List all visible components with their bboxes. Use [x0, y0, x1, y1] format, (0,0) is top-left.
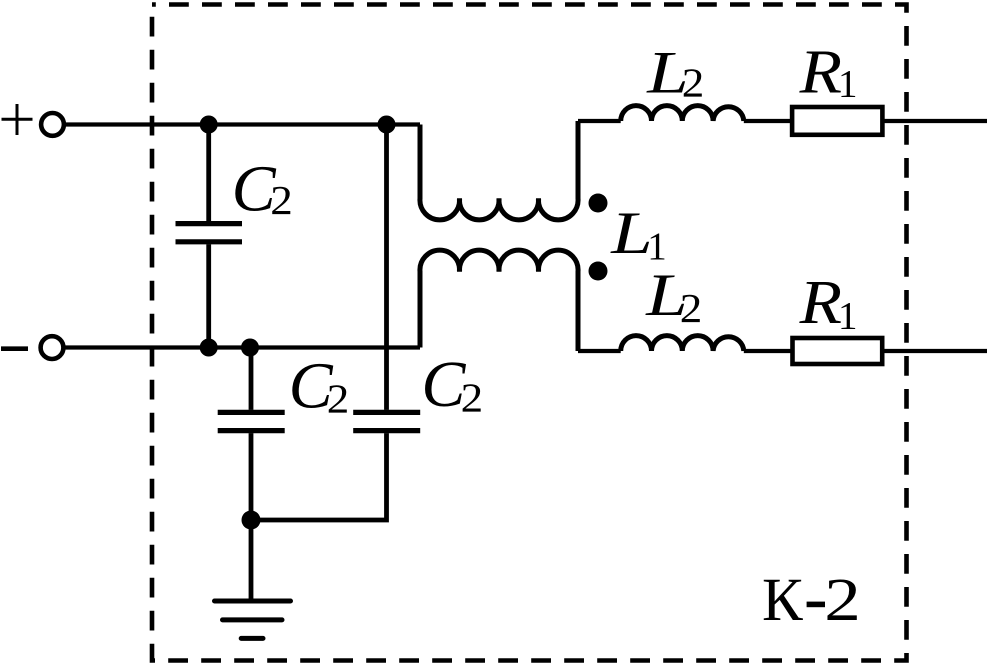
svg-text:1: 1 [838, 63, 858, 106]
inductor L1 primary winding top [420, 121, 578, 220]
svg-text:2: 2 [270, 179, 293, 224]
svg-text:2: 2 [680, 287, 703, 332]
wire plus line [66, 122, 420, 126]
svg-text:2: 2 [824, 566, 861, 634]
capacitor C2 middle: plates [218, 412, 285, 430]
terminal circle plus [41, 113, 64, 136]
capacitor C2 right: lead from plus node crossing minus line [384, 125, 389, 410]
resistor R1 top [792, 107, 882, 135]
svg-text:R: R [799, 268, 842, 337]
node junction minus line middle [241, 339, 259, 357]
dashed enclosure box K-2 [152, 5, 907, 661]
capacitor C2 right: plates [353, 412, 420, 430]
svg-text:2: 2 [682, 61, 705, 106]
ground lead [249, 520, 254, 599]
capacitor C2 left: plates [176, 224, 243, 242]
svg-text:L: L [610, 200, 652, 267]
wire bottom branch [578, 349, 621, 353]
svg-text:К: К [762, 567, 803, 634]
phase dot bottom [589, 262, 608, 281]
plus polarity sign [2, 104, 33, 135]
node junction plus line right [378, 116, 396, 134]
capacitor C2 left: bottom lead [206, 244, 211, 347]
node junction ground [242, 511, 261, 530]
svg-text:1: 1 [838, 294, 858, 337]
node junction plus line left [200, 116, 218, 134]
wire L2 bottom to R1 bottom [744, 349, 792, 353]
label K-2 hyphen [807, 602, 825, 608]
resistor R1 bottom [793, 338, 883, 364]
svg-text:2: 2 [327, 378, 350, 423]
wire top branch [578, 119, 621, 123]
capacitor C2 middle: top lead [249, 348, 254, 410]
wire R1 top to right edge [885, 119, 987, 123]
capacitor C2 right: bottom lead to ground node [251, 433, 387, 520]
inductor L2 bottom [621, 336, 744, 351]
capacitor C2 middle: bottom lead [249, 433, 254, 520]
node junction minus line left [200, 339, 218, 357]
phase dot top [589, 194, 608, 213]
wire L2 top to R1 top [744, 119, 792, 123]
minus polarity sign [1, 346, 28, 351]
svg-text:2: 2 [461, 376, 484, 421]
wire minus line [66, 345, 421, 349]
svg-text:R: R [799, 38, 842, 107]
ground symbol [215, 601, 291, 638]
inductor L1 secondary winding bottom [420, 250, 578, 351]
wire R1 bottom to right edge [884, 349, 987, 353]
capacitor C2 left: top lead [206, 125, 211, 222]
terminal circle minus [41, 336, 64, 359]
inductor L2 top [621, 106, 744, 121]
